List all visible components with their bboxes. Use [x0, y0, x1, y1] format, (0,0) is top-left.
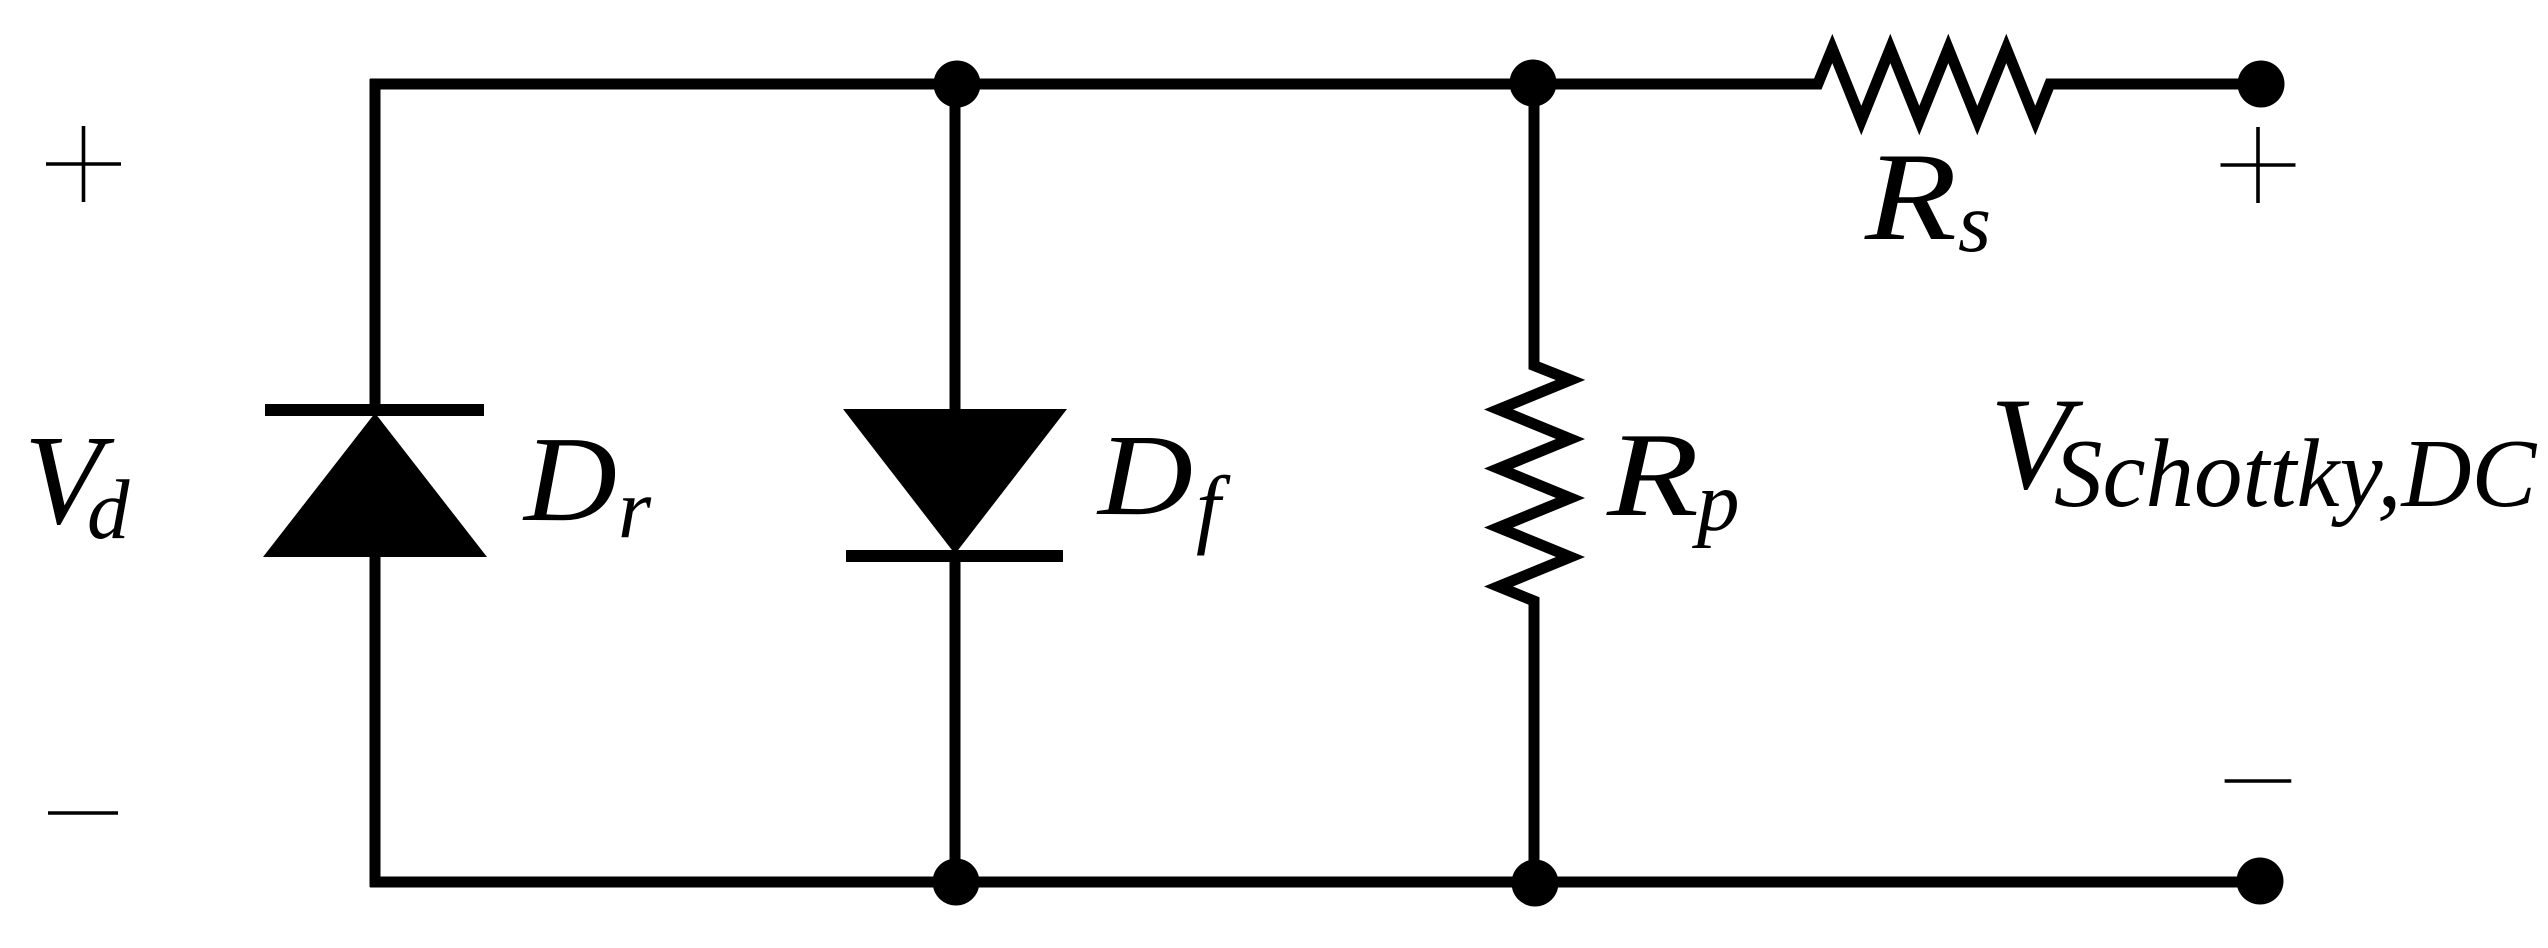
- svg-text:r: r: [618, 462, 652, 556]
- svg-text:R: R: [1864, 128, 1957, 267]
- wire Df branch upper: [950, 84, 961, 412]
- svg-text:R: R: [1606, 408, 1699, 541]
- node junction bottom Rp: [1512, 860, 1559, 907]
- wire left branch lower: [370, 555, 381, 887]
- diode Dr triangle: [263, 413, 487, 557]
- diode Dr cathode bar: [265, 404, 484, 416]
- wire top rail right of Rs: [2048, 79, 2261, 90]
- svg-text:f: f: [1196, 460, 1231, 557]
- minus sign right: [2225, 779, 2292, 783]
- node junction bottom Df: [933, 859, 980, 906]
- wire left branch upper: [370, 79, 381, 412]
- svg-text:d: d: [87, 463, 130, 557]
- wire top rail: [370, 79, 1820, 90]
- wire Rp branch lower: [1529, 600, 1540, 882]
- wire Rp branch upper: [1529, 84, 1540, 366]
- wire bottom rail: [370, 877, 2260, 888]
- svg-text:Schottky,DC: Schottky,DC: [2054, 420, 2538, 527]
- node terminal top right: [2238, 61, 2285, 108]
- node terminal bottom right: [2237, 858, 2284, 905]
- minus sign left: [48, 811, 118, 815]
- node junction top Rp: [1510, 60, 1557, 107]
- resistor Rp: [1499, 356, 1571, 610]
- svg-text:D: D: [522, 412, 617, 547]
- wire Df branch lower: [950, 556, 961, 882]
- node junction top Df: [934, 61, 981, 108]
- svg-text:D: D: [1096, 412, 1193, 540]
- resistor Rs: [1806, 49, 2062, 121]
- diode Df triangle: [843, 409, 1067, 554]
- plus sign right: [2221, 127, 2296, 203]
- svg-text:p: p: [1692, 455, 1740, 549]
- svg-text:s: s: [1958, 176, 1991, 270]
- plus sign left: [46, 126, 121, 202]
- diode Df cathode bar: [846, 550, 1063, 562]
